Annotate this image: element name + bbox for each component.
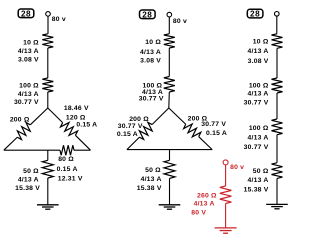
svg-text:80 v: 80 v <box>173 18 187 25</box>
wire R15 to R16 <box>276 135 278 163</box>
svg-text:30.77 V: 30.77 V <box>118 123 143 130</box>
svg-text:4/13 A: 4/13 A <box>248 48 269 55</box>
wire R10 to bottom-right corner <box>199 137 212 150</box>
svg-text:30.77 V: 30.77 V <box>201 121 226 128</box>
wire R1 to R2 <box>47 48 49 78</box>
svg-text:10 Ω: 10 Ω <box>253 39 269 46</box>
resistor R10 200Ω diagonal <box>184 124 201 137</box>
svg-text:28: 28 <box>21 9 31 18</box>
svg-text:4/13 A: 4/13 A <box>248 134 269 141</box>
resistor R15 100Ω <box>272 119 283 135</box>
circuit 1: original ladder with delta network <box>4 9 98 209</box>
wire bottom node to R6 <box>47 150 49 160</box>
svg-text:3.08 V: 3.08 V <box>248 58 269 65</box>
wire R16 to ground <box>276 178 278 204</box>
circuit 3: fully reduced series ladder <box>244 9 288 209</box>
ground symbol circuit 2 <box>159 205 181 209</box>
resistor R4 120Ω diagonal <box>60 123 77 136</box>
wire R12 to red ground <box>225 204 227 228</box>
svg-text:4/13 A: 4/13 A <box>194 201 215 208</box>
wire R5 to bottom-right <box>74 149 91 151</box>
resistor R11 50Ω <box>164 160 175 178</box>
svg-text:30.77 V: 30.77 V <box>139 96 164 103</box>
svg-text:4/13 A: 4/13 A <box>248 177 269 184</box>
svg-text:80 Ω: 80 Ω <box>58 156 74 163</box>
svg-text:28: 28 <box>142 10 152 19</box>
ground symbol circuit 3 <box>266 204 288 208</box>
svg-text:18.46 V: 18.46 V <box>64 105 89 112</box>
svg-text:80 v: 80 v <box>230 164 244 171</box>
svg-text:80 V: 80 V <box>191 210 206 217</box>
svg-text:15.38 V: 15.38 V <box>244 187 269 194</box>
wire red source to R12 <box>225 165 227 186</box>
wire bottom-left to R5 <box>4 149 60 151</box>
problem number badge 28 <box>140 10 156 19</box>
ground symbol red circuit <box>215 228 237 233</box>
svg-text:100 Ω: 100 Ω <box>249 125 269 132</box>
svg-text:0.15 A: 0.15 A <box>117 131 138 138</box>
svg-text:4/13 A: 4/13 A <box>18 91 39 98</box>
svg-text:30.77 V: 30.77 V <box>244 144 269 151</box>
wire R3 to bottom-left corner <box>4 137 17 150</box>
svg-text:200 Ω: 200 Ω <box>129 116 149 123</box>
problem number badge 28 <box>247 9 263 18</box>
svg-text:15.38 V: 15.38 V <box>137 185 162 192</box>
svg-text:0.15 A: 0.15 A <box>57 166 78 173</box>
wire apex to R3 left leg <box>30 108 48 125</box>
resistor R3 200Ω diagonal <box>17 123 30 140</box>
svg-text:0.15 A: 0.15 A <box>206 130 227 137</box>
wire source to R7 <box>168 17 170 34</box>
wire apex to R4 right leg <box>48 108 63 123</box>
svg-text:28: 28 <box>250 10 260 19</box>
wire bottom node to R11 <box>169 150 171 161</box>
svg-text:120 Ω: 120 Ω <box>66 115 86 122</box>
resistor R2 100Ω <box>42 78 53 92</box>
svg-text:10 Ω: 10 Ω <box>145 39 161 46</box>
wire R6 to ground <box>47 178 49 205</box>
svg-text:260 Ω: 260 Ω <box>197 192 217 199</box>
svg-text:3.08 V: 3.08 V <box>140 58 161 65</box>
resistor R13 10Ω <box>272 34 283 49</box>
svg-text:4/13 A: 4/13 A <box>140 49 161 56</box>
wire R11 to ground <box>169 178 171 204</box>
problem number badge 28 <box>18 9 34 18</box>
resistor R12 260Ω red <box>220 186 232 204</box>
circuit 2b (red): total equivalent resistance <box>191 160 244 233</box>
resistor R14 100Ω <box>272 78 283 93</box>
wire source to R1 <box>47 16 49 34</box>
svg-text:50 Ω: 50 Ω <box>253 168 269 175</box>
svg-text:12.31 V: 12.31 V <box>58 175 83 182</box>
terminal source node red (80 v) <box>223 160 228 165</box>
svg-text:4/13 A: 4/13 A <box>141 176 162 183</box>
svg-text:3.08 V: 3.08 V <box>18 56 39 63</box>
svg-text:30.77 V: 30.77 V <box>244 100 269 107</box>
terminal source node <box>275 12 280 17</box>
wire R8 to apex node <box>168 92 171 108</box>
wire apex to R9 left branch <box>152 108 169 125</box>
wire R2 to delta apex node <box>47 92 49 108</box>
resistor R16 50Ω <box>272 163 283 179</box>
terminal source node (80 v) <box>167 12 172 17</box>
svg-text:30.77 V: 30.77 V <box>14 99 39 106</box>
svg-text:15.38 V: 15.38 V <box>15 185 40 192</box>
svg-text:4/13 A: 4/13 A <box>18 177 39 184</box>
wire bottom rail <box>127 149 212 151</box>
svg-text:10 Ω: 10 Ω <box>23 39 39 46</box>
svg-text:80 v: 80 v <box>52 16 66 23</box>
svg-text:100 Ω: 100 Ω <box>249 82 269 89</box>
circuit 2: delta reduced to two parallel 200Ω branches <box>117 10 227 209</box>
wire R14 to R15 <box>276 93 278 119</box>
svg-text:100 Ω: 100 Ω <box>19 82 39 89</box>
wire R9 to bottom-left corner <box>127 137 139 149</box>
wire R7 to R8 <box>168 48 170 77</box>
svg-text:200 Ω: 200 Ω <box>10 116 30 123</box>
resistor R7 10Ω <box>164 34 175 48</box>
ground symbol circuit 1 <box>37 205 59 209</box>
wire apex to R10 right branch <box>169 108 186 124</box>
resistor R9 200Ω diagonal <box>139 122 152 139</box>
wire R13 to R14 <box>276 48 278 78</box>
svg-text:4/13 A: 4/13 A <box>248 91 269 98</box>
svg-text:50 Ω: 50 Ω <box>23 168 39 175</box>
svg-text:50 Ω: 50 Ω <box>145 167 161 174</box>
resistor R6 50Ω <box>42 160 53 178</box>
terminal source node (80 v) <box>46 12 51 17</box>
svg-text:4/13 A: 4/13 A <box>18 48 39 55</box>
resistor R1 10Ω <box>42 34 53 48</box>
resistor R8 100Ω <box>164 77 175 93</box>
wire R4 to bottom-right corner <box>75 135 90 150</box>
svg-text:0.15 A: 0.15 A <box>76 122 97 129</box>
wire source to R13 <box>276 16 278 34</box>
resistor R5 80Ω horizontal <box>60 145 74 155</box>
